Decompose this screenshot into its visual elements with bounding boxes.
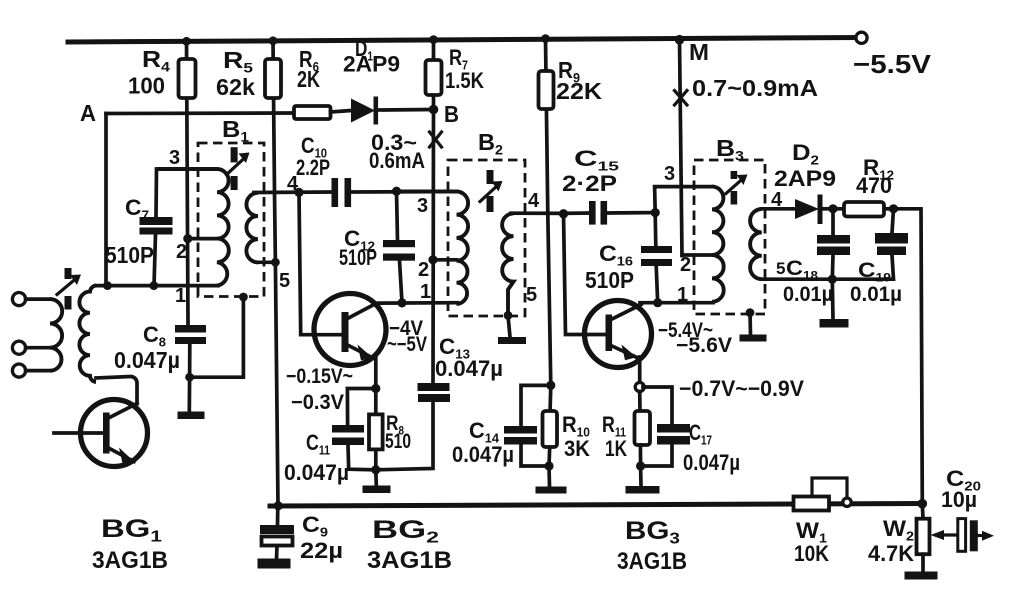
current-check X mark at B xyxy=(430,132,442,147)
wire B2 pin4 xyxy=(511,211,564,215)
svg-text:M: M xyxy=(689,39,709,65)
node dot C9 top xyxy=(274,501,283,510)
label R9 value xyxy=(556,57,602,104)
label C9 value xyxy=(300,512,343,563)
wire antenna coil to BG1 collector xyxy=(96,376,137,403)
svg-text:5: 5 xyxy=(279,270,290,292)
label W2 value xyxy=(868,516,914,566)
svg-text:~−5V: ~−5V xyxy=(387,333,427,356)
B2 trimmer core arrow xyxy=(480,170,503,212)
label C16 value xyxy=(585,241,634,293)
label D2 value xyxy=(774,140,836,191)
potentiometer W2 xyxy=(917,504,930,572)
ground B2 pin5 xyxy=(498,315,526,344)
resistor R11 xyxy=(635,392,651,467)
svg-text:2: 2 xyxy=(176,241,187,263)
capacitor C19 xyxy=(832,209,908,279)
label R10 value xyxy=(562,412,590,461)
transistor BG1 xyxy=(54,400,148,467)
svg-text:3K: 3K xyxy=(564,436,590,461)
label R12 value xyxy=(856,155,894,198)
wire B2 pin2 tap xyxy=(433,258,457,262)
node dot BG2 emitter xyxy=(371,384,380,393)
svg-text:470: 470 xyxy=(856,173,892,198)
label C15 value xyxy=(562,146,619,196)
svg-text:2: 2 xyxy=(418,259,429,281)
transistor BG2 xyxy=(314,294,386,366)
svg-text:2AP9: 2AP9 xyxy=(343,52,400,77)
svg-text:2: 2 xyxy=(680,254,691,276)
svg-text:1K: 1K xyxy=(605,436,627,461)
label BG3 collector voltage xyxy=(658,319,732,357)
wire B3 pin2 tap xyxy=(682,253,712,257)
node dot B xyxy=(429,105,439,115)
svg-text:4: 4 xyxy=(287,173,299,195)
wire C15 to B3 pin3 xyxy=(655,187,712,213)
label 0.3-0.6mA xyxy=(369,130,425,173)
antenna terminal top xyxy=(12,293,25,306)
node dot C16 bottom collector xyxy=(653,298,662,307)
node circle W1 wiper xyxy=(843,498,851,506)
wire top supply rail xyxy=(68,38,861,43)
svg-text:0.047µ: 0.047µ xyxy=(435,356,503,381)
capacitor C7 xyxy=(140,169,173,286)
wire B1 pin5 xyxy=(258,260,275,264)
svg-text:510P: 510P xyxy=(339,245,377,270)
svg-text:0.7~0.9mA: 0.7~0.9mA xyxy=(692,75,818,101)
svg-text:1: 1 xyxy=(420,281,431,303)
transistor BG3 xyxy=(585,301,652,368)
node dot R8 bottom xyxy=(371,465,380,474)
diode D1 xyxy=(351,97,378,125)
svg-text:0.047µ: 0.047µ xyxy=(452,442,514,467)
svg-text:2AP9: 2AP9 xyxy=(774,166,836,191)
svg-text:2K: 2K xyxy=(297,66,320,92)
node dot C16 top xyxy=(651,208,660,217)
svg-text:62k: 62k xyxy=(216,74,255,100)
node dot D2 cathode xyxy=(828,204,837,213)
svg-text:4.7K: 4.7K xyxy=(868,541,914,566)
node dot B2 pin4 xyxy=(559,209,568,218)
ground C8 xyxy=(178,377,205,419)
svg-text:−0.15V~: −0.15V~ xyxy=(286,365,353,388)
W2 wiper arrow xyxy=(931,530,958,540)
wire BG2 base from B1 pin4 xyxy=(299,192,342,334)
label BG1 type xyxy=(92,515,168,574)
svg-text:510P: 510P xyxy=(105,242,154,268)
resistor R4 xyxy=(179,59,196,98)
label R7 value xyxy=(445,45,484,93)
label D1 value xyxy=(343,36,400,77)
B1 primary coil xyxy=(157,169,229,286)
svg-text:0.6mA: 0.6mA xyxy=(369,148,425,173)
node dot C10 right xyxy=(392,187,401,196)
svg-text:1: 1 xyxy=(677,284,688,306)
node dot B2 pin5 xyxy=(504,311,513,320)
svg-text:−0.3V: −0.3V xyxy=(291,391,344,414)
node dot right rail bottom xyxy=(918,499,928,509)
antenna primary coil xyxy=(26,299,63,371)
capacitor C14 xyxy=(504,385,551,466)
transformer B1 dashed box xyxy=(198,143,264,297)
capacitor C15 xyxy=(564,201,656,225)
node dot A bottom xyxy=(103,281,112,290)
capacitor C17 xyxy=(641,387,690,466)
diode D2 xyxy=(795,195,833,225)
node dot rail R5 xyxy=(269,36,278,45)
B3 trimmer core arrow xyxy=(726,171,748,205)
ground B3 shield xyxy=(740,312,767,341)
B3 primary coil xyxy=(712,187,724,302)
svg-text:10µ: 10µ xyxy=(941,487,977,512)
B2 primary coil xyxy=(398,192,468,304)
label C13 value xyxy=(435,334,503,381)
wire bottom-left bus xyxy=(96,284,218,288)
label C14 value xyxy=(452,418,514,467)
capacitor C12 xyxy=(383,191,415,303)
svg-text:3AG1B: 3AG1B xyxy=(367,547,452,574)
ground R8 xyxy=(363,470,391,493)
svg-text:4: 4 xyxy=(771,189,783,211)
wire BG3 collector xyxy=(640,301,713,305)
svg-text:−0.7V~−0.9V: −0.7V~−0.9V xyxy=(679,376,804,401)
node dot rail R4 xyxy=(182,37,191,46)
svg-text:100: 100 xyxy=(128,73,165,99)
potentiometer W1 xyxy=(794,478,848,511)
svg-text:5: 5 xyxy=(526,284,537,306)
wire right rail vertical xyxy=(894,209,923,504)
transformer B2 dashed box xyxy=(448,160,525,316)
label C20 value xyxy=(941,466,981,512)
wire BG2 emitter xyxy=(374,358,378,389)
label C11 value xyxy=(284,430,349,485)
label W1 value xyxy=(794,518,829,566)
svg-text:510P: 510P xyxy=(585,267,634,293)
svg-text:510: 510 xyxy=(385,430,411,453)
ground C9 xyxy=(258,559,291,569)
node dot rail R7 xyxy=(429,35,438,44)
wire node A vertical xyxy=(104,114,108,287)
wire BG3 base xyxy=(564,214,606,335)
svg-text:−5.5V: −5.5V xyxy=(853,49,932,79)
wire BG3 emitter xyxy=(638,357,642,383)
node dot R12 right xyxy=(889,204,898,213)
ground R11 xyxy=(626,466,660,494)
node dot B1 pin2 xyxy=(183,234,192,243)
B2 secondary coil xyxy=(502,213,513,315)
label R4 value xyxy=(128,46,170,99)
label C7 value xyxy=(105,195,154,268)
antenna tuning coil xyxy=(79,286,96,382)
capacitor C16 xyxy=(641,213,672,303)
node dot B1 pin5 xyxy=(271,258,280,267)
svg-text:2·2P: 2·2P xyxy=(562,171,617,196)
label C10 value xyxy=(296,133,330,180)
wire bottom ground rail xyxy=(270,504,922,507)
node dot B1 pin4 xyxy=(294,188,303,197)
node dot R10 top xyxy=(546,381,555,390)
svg-text:3: 3 xyxy=(169,147,180,169)
node dot B1 shield xyxy=(239,293,248,302)
ground W2 xyxy=(905,572,938,580)
resistor R12 xyxy=(833,202,894,217)
label BG2 collector voltage xyxy=(387,317,427,356)
svg-text:5: 5 xyxy=(776,259,785,278)
node dot C8 bottom xyxy=(185,373,194,382)
svg-text:22µ: 22µ xyxy=(300,538,343,563)
svg-text:10K: 10K xyxy=(794,541,829,566)
wire R7 / node B vertical xyxy=(431,41,435,383)
capacitor C13 xyxy=(376,383,450,470)
resistor R5 xyxy=(265,59,281,98)
ground C18 xyxy=(820,279,849,327)
svg-text:0.01µ: 0.01µ xyxy=(850,283,902,306)
B3 secondary coil xyxy=(750,209,762,279)
node dot C18 bottom xyxy=(828,275,837,284)
svg-text:3AG1B: 3AG1B xyxy=(92,547,168,574)
wire R9 branch vertical xyxy=(546,39,551,414)
wire R5 branch vertical xyxy=(273,41,278,506)
svg-text:4: 4 xyxy=(528,190,540,212)
label R5 value xyxy=(216,47,255,100)
antenna terminal middle xyxy=(12,341,25,354)
svg-text:0.01µ: 0.01µ xyxy=(783,283,833,306)
svg-text:3: 3 xyxy=(417,195,428,217)
svg-text:3: 3 xyxy=(664,163,675,185)
resistor R7 xyxy=(426,60,442,95)
node dot B3 shield xyxy=(746,308,755,317)
current-check X mark at M xyxy=(675,91,688,106)
node dot C12 bottom collector xyxy=(397,298,406,307)
svg-text:22K: 22K xyxy=(556,78,602,104)
wire meter branch M vertical xyxy=(680,40,683,256)
svg-text:A: A xyxy=(80,100,96,126)
node circle BG3 emitter xyxy=(635,383,644,392)
label R6 value xyxy=(297,46,320,92)
B1 trimmer core arrow xyxy=(227,147,250,190)
node dot B2 pin2 xyxy=(428,255,437,264)
capacitor C11 xyxy=(332,389,376,470)
wire B3 pin4 to D2 xyxy=(762,207,795,211)
node A wire horizontal xyxy=(106,111,294,115)
resistor R6 xyxy=(294,106,331,119)
node dot R10 bottom xyxy=(544,461,553,470)
capacitor C18 xyxy=(817,209,850,279)
svg-text:0.047µ: 0.047µ xyxy=(683,450,740,475)
wire R4 branch vertical xyxy=(187,41,189,325)
svg-text:1.5K: 1.5K xyxy=(445,68,484,93)
wire D1 to node B xyxy=(378,108,431,112)
ground R10 xyxy=(536,466,567,494)
terminal -5.5V xyxy=(856,32,867,43)
label BG3 type xyxy=(617,517,687,575)
label BG2 type xyxy=(367,516,452,574)
svg-text:1: 1 xyxy=(175,285,186,307)
svg-text:0.047µ: 0.047µ xyxy=(114,347,180,373)
resistor R10 xyxy=(543,411,558,466)
label C8 value xyxy=(114,322,180,373)
node dot C7 bottom xyxy=(149,281,158,290)
wire B1 pin2 tap xyxy=(188,237,218,241)
wire B3 pin5 xyxy=(762,277,832,281)
output arrow xyxy=(978,531,994,541)
resistor R9 xyxy=(539,71,554,109)
label R8 value xyxy=(385,412,411,453)
node dot R11 bottom xyxy=(636,461,645,470)
antenna terminal bottom xyxy=(12,364,25,377)
svg-text:2.2P: 2.2P xyxy=(296,155,330,180)
capacitor C20 electrolytic xyxy=(958,519,978,552)
svg-text:−5.6V: −5.6V xyxy=(676,334,732,357)
capacitor C8 xyxy=(175,325,206,377)
resistor R8 xyxy=(369,389,383,470)
svg-text:0.047µ: 0.047µ xyxy=(284,460,349,485)
label C19 value xyxy=(850,259,902,306)
B1 secondary coil xyxy=(246,193,258,263)
capacitor C10 xyxy=(332,178,352,207)
label R11 value xyxy=(602,412,627,461)
label C18 value xyxy=(783,257,833,306)
label BG2 base voltage xyxy=(286,365,353,414)
capacitor C9 electrolytic xyxy=(260,506,294,559)
antenna trimmer core arrow xyxy=(57,268,81,310)
label C17 value xyxy=(683,420,740,475)
wire BG2 collector to B2 pin1 xyxy=(373,301,457,305)
transformer B3 dashed box xyxy=(694,160,765,314)
wire B1 shield to C8 node xyxy=(190,297,244,377)
wire R6 to D1 xyxy=(331,111,352,113)
svg-text:B: B xyxy=(444,101,459,127)
wire B1 pin4 to B2 pin3 xyxy=(254,192,457,193)
node dot rail R9 xyxy=(541,34,550,43)
node dot rail M xyxy=(675,35,685,45)
label C12 value xyxy=(339,226,377,270)
svg-text:3AG1B: 3AG1B xyxy=(617,548,687,575)
